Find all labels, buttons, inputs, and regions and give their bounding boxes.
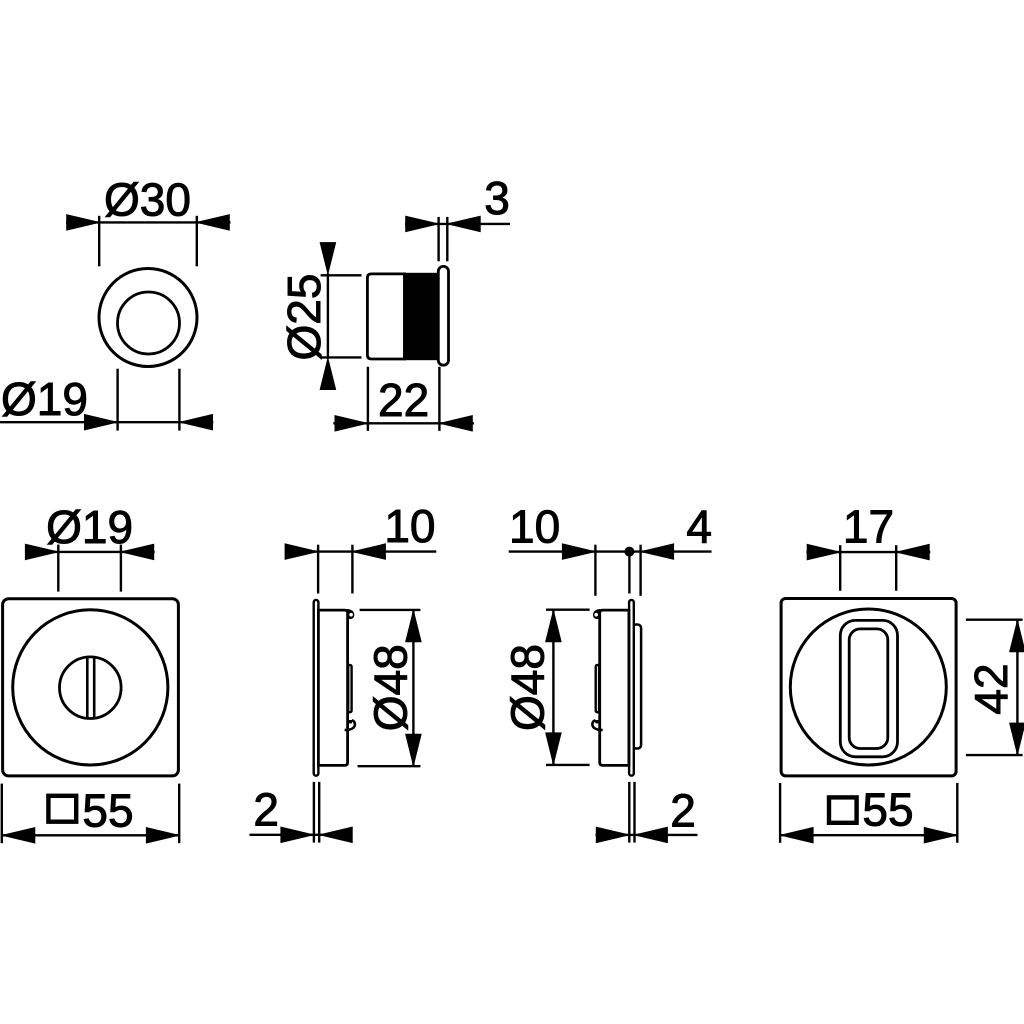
svg-text:2: 2 bbox=[670, 784, 696, 836]
svg-text:55: 55 bbox=[82, 784, 133, 836]
svg-text:17: 17 bbox=[843, 501, 894, 553]
svg-text:42: 42 bbox=[965, 663, 1017, 714]
svg-text:Ø48: Ø48 bbox=[364, 644, 416, 731]
svg-text:22: 22 bbox=[378, 374, 429, 426]
svg-text:Ø30: Ø30 bbox=[104, 174, 191, 226]
svg-text:3: 3 bbox=[484, 172, 510, 224]
svg-text:Ø19: Ø19 bbox=[1, 373, 88, 425]
svg-text:10: 10 bbox=[509, 501, 560, 553]
svg-text:10: 10 bbox=[384, 500, 435, 552]
svg-text:Ø48: Ø48 bbox=[502, 644, 554, 731]
svg-text:55: 55 bbox=[862, 783, 913, 835]
svg-text:2: 2 bbox=[253, 784, 279, 836]
svg-text:4: 4 bbox=[686, 501, 712, 553]
svg-text:Ø25: Ø25 bbox=[278, 274, 330, 361]
